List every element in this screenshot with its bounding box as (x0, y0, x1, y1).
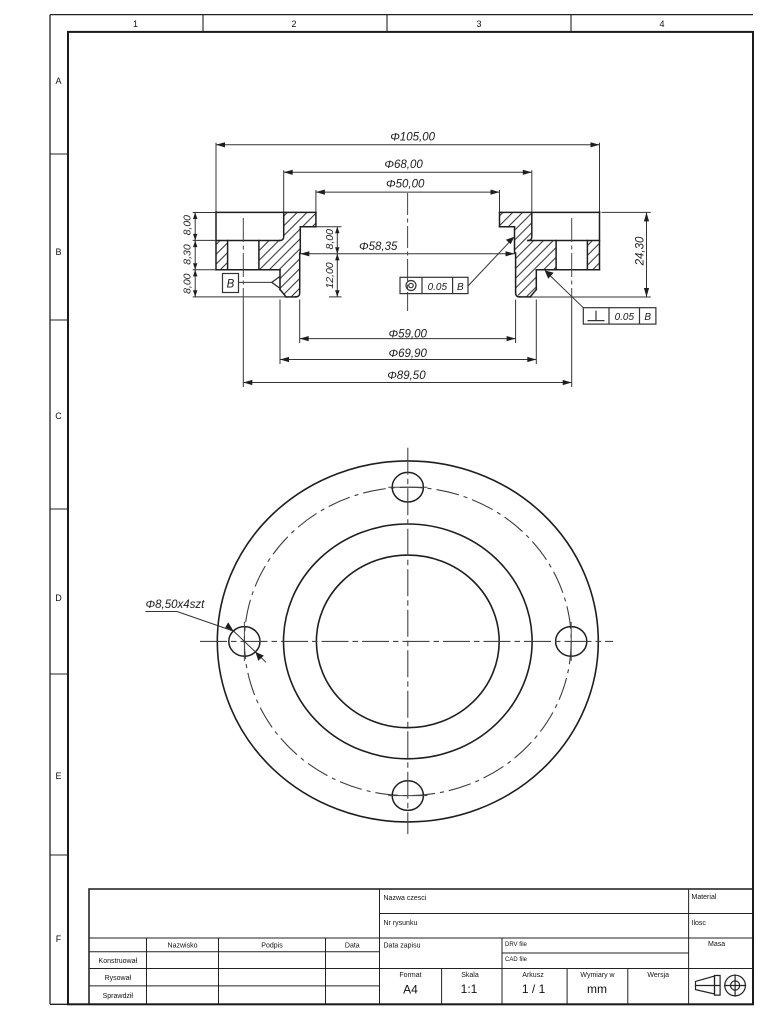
vertical: material col (688, 889, 690, 1004)
outline bore wall left (296, 227, 301, 297)
svg-text:1 / 1: 1 / 1 (522, 982, 546, 996)
ext line phi89.5 right (571, 300, 573, 387)
outline bolt hole walls right (556, 241, 587, 270)
hole tick right (570, 622, 572, 661)
outline bore wall right (515, 227, 520, 297)
dim line phi105 (216, 144, 600, 146)
arrow phi105 right (591, 142, 600, 147)
datum B box (223, 274, 239, 293)
dim line 24.3 (646, 212, 648, 297)
arrows left stack (193, 212, 197, 219)
outline ring bottom right (520, 296, 531, 298)
svg-text:1:1: 1:1 (461, 982, 478, 996)
TITLEBLOCK (89, 889, 753, 1004)
arrow phi89.5 right (563, 380, 572, 385)
projection symbol cone (696, 976, 721, 996)
datum B leader (239, 281, 272, 283)
vertical: podpis col (325, 938, 327, 1004)
title block outer rect (89, 889, 753, 1004)
outline phi50 wall left (315, 212, 317, 226)
dim line phi59 (300, 338, 516, 340)
perpendicularity leader arrow (545, 270, 554, 278)
svg-text:F: F (56, 934, 62, 944)
vertical: drv cell left (501, 938, 503, 969)
outline top surface left (216, 211, 316, 213)
arrow phi58.35 right (506, 251, 515, 256)
projection symbol target circle (724, 974, 746, 996)
svg-text:mm: mm (587, 982, 607, 996)
arrow phi68 right (523, 170, 532, 175)
outline phi68 wall right with fillet (528, 212, 532, 240)
vertical: nazwisko col (218, 938, 220, 1004)
hole tick bottom (388, 795, 427, 797)
svg-text:Material: Material (692, 894, 717, 901)
ext line 24.3 bottom (531, 296, 651, 298)
svg-text:B: B (644, 312, 651, 323)
arrow phi105 left (216, 142, 225, 147)
perpendicularity frame (583, 308, 656, 324)
svg-text:Podpis: Podpis (261, 943, 283, 950)
svg-text:Φ89,50: Φ89,50 (387, 370, 426, 382)
svg-text:Ilosc: Ilosc (692, 920, 707, 927)
outline ring chamfer right (530, 290, 536, 297)
svg-text:C: C (55, 411, 62, 421)
svg-text:Nazwisko: Nazwisko (168, 943, 198, 950)
svg-text:3: 3 (476, 19, 481, 29)
svg-text:Data zapisu: Data zapisu (384, 943, 421, 950)
svg-text:Masa: Masa (708, 941, 725, 948)
circle phi50 (316, 555, 499, 728)
circle phi68 (284, 524, 533, 759)
svg-text:1: 1 (133, 19, 138, 29)
svg-text:Data: Data (345, 943, 360, 950)
vertical: wymiary/wersja (627, 969, 629, 1005)
hatch right sliver (587, 241, 599, 270)
ext line phi68 left (283, 170, 285, 212)
dim line phi50 (316, 191, 500, 193)
outline top surface right (500, 211, 600, 213)
outline bolt hole walls left (228, 241, 259, 270)
outline ring bottom left (286, 296, 296, 298)
arrow phi59 right (507, 336, 516, 341)
svg-text:Wymiary w: Wymiary w (580, 972, 615, 979)
hole leader arrow upper (225, 622, 233, 631)
svg-text:Φ69,90: Φ69,90 (388, 348, 427, 360)
FRONT VIEW (146, 448, 614, 834)
hatch right main piece (500, 212, 557, 297)
svg-text:Wersja: Wersja (647, 972, 669, 979)
outer circle phi105 (217, 461, 598, 822)
svg-text:8,00: 8,00 (324, 229, 336, 250)
svg-text:Rysował: Rysował (105, 975, 132, 982)
svg-text:B: B (227, 279, 235, 291)
outer frame top line (50, 14, 753, 16)
outline plate bottom left (216, 269, 280, 271)
ext line phi50 left (315, 190, 317, 212)
vertical: arkusz/wymiary (566, 969, 568, 1005)
perpendicularity leader (546, 272, 583, 308)
ext line phi50 right (499, 190, 501, 212)
svg-text:CAD file: CAD file (505, 957, 528, 963)
konstruowal/rysowal boundary (89, 968, 380, 970)
svg-text:A: A (55, 76, 61, 86)
concentricity leader (468, 238, 513, 286)
hole leader shoulder (177, 612, 234, 632)
SECTION VIEW (182, 131, 656, 387)
arrow phi59 left (300, 336, 309, 341)
left strip row ticks (50, 154, 68, 855)
svg-text:Sprawdził: Sprawdził (103, 993, 134, 1000)
svg-text:12,00: 12,00 (324, 262, 336, 288)
centerline bolt hole right (571, 218, 573, 300)
outline phi50 step face left (300, 226, 316, 228)
svg-text:Nazwa czesci: Nazwa czesci (384, 895, 427, 902)
outline plate top right (528, 240, 600, 242)
svg-text:0.05: 0.05 (428, 282, 448, 293)
svg-text:Φ8,50x4szt: Φ8,50x4szt (146, 599, 206, 611)
arrow phi69.9 left (280, 357, 289, 362)
centerline bolt hole left (242, 218, 244, 300)
svg-text:Konstruował: Konstruował (99, 958, 138, 965)
svg-text:8,00: 8,00 (182, 215, 194, 236)
outline phi68 wall left with fillet (280, 212, 284, 240)
dim line phi58.35 (300, 253, 514, 255)
ext line 24.3 top (602, 211, 651, 213)
inner stack ext lines (316, 227, 342, 297)
vertical: format/skala (441, 969, 443, 1005)
drv/cad boundary (502, 952, 689, 954)
outline OD wall left (215, 212, 217, 270)
svg-text:D: D (55, 593, 62, 603)
hole leader diagonal (234, 631, 266, 662)
svg-text:DRV file: DRV file (505, 942, 528, 948)
outline ring wall right (535, 270, 537, 290)
left stack ext lines (193, 213, 286, 297)
dim line phi68 (284, 171, 532, 173)
svg-text:4: 4 (659, 19, 664, 29)
concentricity leader arrow (506, 237, 515, 244)
outline plate bottom right (536, 269, 599, 271)
vertical: label col (146, 938, 148, 1004)
datum B triangle (272, 276, 280, 288)
svg-text:Φ50,00: Φ50,00 (386, 179, 425, 191)
nazwa/nr boundary (380, 913, 754, 915)
outline phi50 wall right (499, 212, 501, 226)
ext line phi105 right (599, 143, 601, 212)
bolt hole left (229, 627, 260, 657)
svg-text:2: 2 (291, 19, 296, 29)
outer frame bottom stub (50, 1003, 68, 1005)
ext line phi59 left (299, 300, 301, 344)
svg-text:8,30: 8,30 (182, 244, 194, 265)
svg-text:Φ68,00: Φ68,00 (384, 159, 423, 171)
arrow phi69.9 right (527, 357, 536, 362)
svg-text:Nr rysunku: Nr rysunku (384, 920, 418, 927)
hole tick left (243, 622, 245, 661)
centerline main (407, 193, 409, 311)
arrows inner stack (335, 227, 339, 234)
header/konstruowal boundary (89, 951, 380, 953)
svg-text:Format: Format (399, 972, 421, 979)
svg-text:0.05: 0.05 (615, 312, 635, 323)
vertical: skala/arkusz (501, 969, 503, 1005)
arrow phi50 right (491, 190, 500, 195)
data-zapisu/bottom-row boundary (380, 968, 754, 970)
inner stack dim line (336, 227, 338, 297)
outer frame left line (49, 15, 51, 1005)
hole leader underline (146, 611, 178, 613)
hatch left main piece (259, 212, 316, 297)
bolt circle dashed (244, 487, 571, 795)
hole leader arrow lower (255, 652, 263, 661)
svg-text:Skala: Skala (461, 972, 479, 979)
ext line phi59 right (515, 300, 517, 344)
svg-text:24,30: 24,30 (635, 236, 647, 266)
row line full width (89, 937, 753, 939)
bolt hole right (556, 627, 587, 657)
outline OD wall right (599, 212, 601, 270)
svg-text:Φ59,00: Φ59,00 (388, 328, 427, 340)
dim line phi69.9 (280, 359, 536, 361)
hole tick top (388, 486, 427, 488)
ext line phi89.5 left (242, 300, 244, 387)
arrow phi68 left (284, 170, 293, 175)
dim line phi89.5 (243, 382, 571, 384)
concentricity frame (400, 277, 468, 293)
outline phi50 step face right (500, 226, 515, 228)
top strip column ticks (203, 15, 571, 32)
svg-text:A4: A4 (403, 983, 418, 997)
rysowal/sprawdzil boundary (89, 985, 380, 987)
outline ring chamfer left (280, 290, 286, 297)
svg-text:Φ105,00: Φ105,00 (390, 131, 435, 143)
arrow phi58.35 left (300, 251, 309, 256)
svg-text:8,00: 8,00 (182, 273, 194, 294)
arrow phi50 left (316, 190, 325, 195)
svg-text:E: E (55, 771, 61, 781)
ext line phi69.9 left (279, 300, 281, 365)
svg-text:Arkusz: Arkusz (522, 972, 544, 979)
arrow 24.3 top (644, 212, 649, 221)
centerline horizontal (200, 640, 613, 642)
centerline vertical (407, 448, 409, 834)
bolt hole top (392, 472, 423, 502)
svg-text:B: B (457, 282, 464, 293)
ext line phi68 right (531, 170, 533, 212)
ext line phi105 left (215, 143, 217, 212)
bolt hole bottom (392, 781, 423, 811)
vertical: table/right boundary (379, 889, 381, 1004)
outline plate top left (216, 240, 280, 242)
arrow phi89.5 left (243, 380, 252, 385)
arrow 24.3 bottom (644, 288, 649, 297)
svg-text:Φ58,35: Φ58,35 (359, 241, 398, 253)
left stack dim line (194, 212, 196, 297)
hatch left sliver (216, 241, 228, 270)
ext line phi69.9 right (535, 300, 537, 365)
svg-text:B: B (55, 247, 61, 257)
outline ring wall left (279, 270, 281, 290)
